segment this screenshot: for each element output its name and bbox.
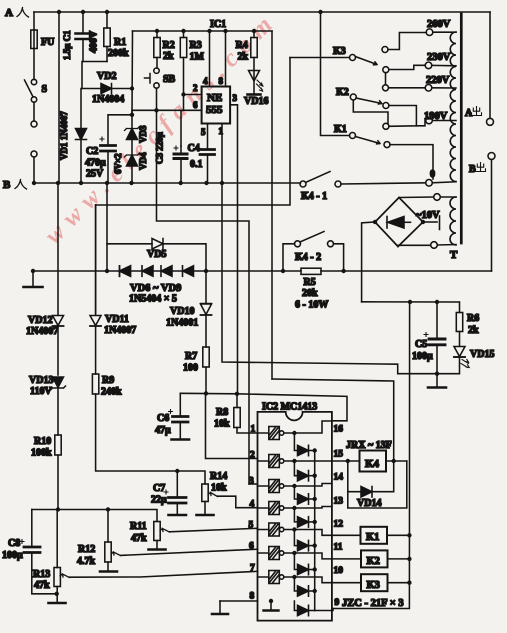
- wire K4 right: [386, 460, 407, 462]
- node tap 0: [426, 169, 456, 186]
- resistor R1: [104, 12, 129, 62]
- node loop dots: [31, 269, 35, 273]
- svg-text:4: 4: [203, 76, 208, 86]
- capacitor C8: [2, 510, 57, 594]
- wire SB bottom: [156, 88, 158, 110]
- diode VD9: [129, 266, 194, 305]
- svg-text:VD10: VD10: [170, 306, 194, 317]
- svg-text:C7: C7: [153, 483, 165, 494]
- svg-text:100k: 100k: [31, 448, 52, 459]
- fuse FU: [31, 30, 55, 49]
- node K2 lower throw: [383, 103, 389, 109]
- ground IC2 internal: [264, 599, 279, 611]
- terminal B-out: [469, 153, 495, 272]
- svg-text:10k: 10k: [214, 419, 230, 430]
- svg-text:4: 4: [250, 500, 255, 510]
- svg-text:6: 6: [249, 542, 254, 552]
- svg-text:0: 0: [430, 169, 435, 180]
- svg-text:6 - 10W: 6 - 10W: [295, 300, 328, 311]
- node R13 bottom: [55, 592, 59, 596]
- node C7 junction: [175, 469, 179, 473]
- svg-text:A: A: [5, 7, 13, 19]
- svg-text:R4: R4: [236, 40, 248, 51]
- node C5 ground dot: [435, 372, 439, 376]
- label B-in: [3, 179, 27, 191]
- wire K2 lower chain: [389, 106, 417, 126]
- cell CH4: [258, 502, 332, 515]
- wire C3 column: [181, 95, 184, 147]
- svg-text:1M: 1M: [190, 52, 205, 63]
- svg-text:22μ: 22μ: [151, 495, 167, 506]
- svg-text:R8: R8: [216, 407, 228, 418]
- zener VD4: [113, 140, 148, 184]
- wire S to terminal: [33, 102, 35, 121]
- wire FU to S: [33, 49, 35, 80]
- label pin numbers right: [334, 425, 344, 609]
- ground C6: [172, 438, 190, 441]
- svg-text:100μ: 100μ: [412, 351, 433, 362]
- node K2 upper throw: [383, 85, 389, 91]
- wire pin4: [209, 31, 211, 87]
- wire diode bus: [314, 451, 316, 611]
- wire K3 upper to 260V: [388, 33, 426, 50]
- svg-text:8: 8: [219, 76, 224, 86]
- svg-text:R6: R6: [467, 313, 479, 324]
- svg-text:IC2 MC1413: IC2 MC1413: [262, 402, 317, 413]
- svg-text:C4: C4: [188, 143, 200, 154]
- svg-text:8: 8: [250, 592, 255, 602]
- node V+ rail dots: [155, 29, 159, 33]
- capacitor C4: [188, 143, 215, 183]
- node secondary top: [416, 194, 456, 221]
- relay K1: [332, 527, 412, 544]
- contact K3: [290, 46, 377, 65]
- diode D-CH6: [292, 551, 317, 575]
- svg-text:R3: R3: [190, 40, 202, 51]
- svg-text:C8: C8: [8, 538, 20, 549]
- ground main: [24, 271, 43, 287]
- capacitor C2: [85, 137, 116, 183]
- wire bridge AC bottom: [398, 245, 431, 246]
- svg-text:100μ: 100μ: [2, 550, 23, 561]
- node K1 lower throw: [384, 142, 390, 148]
- svg-text:FU: FU: [41, 37, 54, 48]
- relay K2: [332, 550, 412, 567]
- svg-text:R1: R1: [114, 37, 126, 48]
- node divider dots: [56, 507, 60, 511]
- node R7 node dots: [204, 391, 208, 395]
- svg-text:R14: R14: [210, 471, 227, 482]
- svg-text:2k: 2k: [163, 51, 174, 62]
- svg-text:R2: R2: [163, 40, 175, 51]
- ground pin8: [212, 601, 228, 614]
- svg-text:9: 9: [335, 598, 340, 608]
- svg-text:R12: R12: [78, 544, 95, 555]
- wire pin9 exit: [315, 609, 333, 611]
- svg-text:200k: 200k: [108, 48, 129, 59]
- diode VD10: [166, 271, 212, 347]
- node secondary bottom: [431, 242, 456, 249]
- wire bridge right stub: [421, 216, 440, 230]
- node pin2 junction: [181, 92, 185, 96]
- svg-text:VD12: VD12: [28, 315, 52, 326]
- diode D-CH4: [292, 506, 317, 527]
- capacitor C5: [412, 302, 445, 374]
- svg-text:R9: R9: [102, 375, 114, 386]
- resistor R6: [456, 302, 479, 346]
- node B rail dots: [32, 181, 36, 185]
- wire R1-C1 join: [82, 62, 107, 89]
- capacitor C3: [155, 132, 188, 183]
- svg-text:400V: 400V: [89, 30, 100, 53]
- ground R12: [100, 570, 117, 573]
- svg-text:R7: R7: [185, 351, 197, 362]
- wire terminal to B rail: [33, 157, 35, 183]
- wire A-in drop: [33, 12, 35, 30]
- node open terminal lower: [31, 151, 37, 157]
- wire K3 lower to 230V: [389, 65, 426, 69]
- svg-text:47k: 47k: [131, 533, 147, 544]
- svg-text:3: 3: [233, 93, 238, 103]
- svg-text:JRX ~ 13F: JRX ~ 13F: [346, 440, 392, 451]
- wire pin8: [220, 600, 258, 602]
- svg-text:12: 12: [334, 520, 344, 530]
- wire bridge AC top: [399, 196, 434, 199]
- wire K4-1 to 0 tap: [341, 183, 426, 184]
- svg-text:1: 1: [251, 425, 256, 435]
- wire bridge DC left: [362, 222, 375, 302]
- diode VD2: [82, 71, 132, 105]
- diode VD7: [142, 266, 153, 277]
- diode D-CH5: [292, 527, 317, 551]
- cell CH3: [258, 480, 332, 493]
- svg-text:JZC - 21F × 3: JZC - 21F × 3: [342, 598, 404, 609]
- diode D-CH8: [294, 601, 314, 616]
- diode VD1: [59, 89, 87, 184]
- svg-text:47k: 47k: [34, 580, 50, 591]
- svg-text:K4 - 2: K4 - 2: [295, 252, 321, 263]
- svg-text:470μ: 470μ: [85, 158, 106, 169]
- svg-text:6: 6: [193, 100, 198, 110]
- diode VD5: [107, 239, 206, 272]
- wire K1 lower to 0 tap: [390, 145, 433, 179]
- wire supply drop: [333, 302, 410, 609]
- switch S: [25, 79, 48, 102]
- cell CH1: [258, 421, 332, 440]
- switch K4-1: [300, 172, 341, 203]
- svg-text:1N5404 × 5: 1N5404 × 5: [129, 294, 177, 305]
- wire DC rail y302: [362, 301, 459, 303]
- svg-text:NE: NE: [207, 92, 222, 104]
- wire W1 ground link: [222, 183, 435, 374]
- svg-text:C5: C5: [415, 339, 427, 350]
- svg-text:K4 - 1: K4 - 1: [301, 191, 327, 202]
- svg-text:1N4001: 1N4001: [166, 318, 198, 329]
- zener VD13: [29, 375, 66, 435]
- svg-text:K3: K3: [333, 46, 346, 57]
- svg-text:16: 16: [334, 425, 344, 435]
- svg-text:K3: K3: [367, 580, 380, 591]
- node open terminal upper: [31, 121, 37, 127]
- svg-text:1N4004: 1N4004: [92, 94, 124, 105]
- svg-text:C2: C2: [86, 146, 98, 157]
- wire K2 upper to 220V: [389, 87, 426, 89]
- svg-text:11: 11: [334, 543, 343, 553]
- wire pin3 entry: [249, 483, 258, 485]
- node tap 230V: [425, 52, 456, 69]
- svg-text:5: 5: [201, 127, 206, 137]
- svg-text:2: 2: [193, 83, 198, 93]
- svg-text:240k: 240k: [101, 387, 122, 398]
- diode D-CH1: [292, 431, 317, 456]
- svg-text:20k: 20k: [302, 288, 318, 299]
- svg-text:B: B: [3, 179, 11, 191]
- svg-text:R5: R5: [304, 277, 316, 288]
- svg-text:10k: 10k: [211, 483, 227, 494]
- wire K3lower-K2upper chain: [385, 73, 387, 85]
- svg-text:VD11: VD11: [105, 314, 129, 325]
- node tap 190V: [424, 111, 456, 124]
- wire VD11 column top: [95, 205, 97, 313]
- svg-text:K4: K4: [365, 458, 380, 470]
- node DC rail dots: [408, 300, 412, 304]
- diode VD8: [161, 266, 172, 277]
- resistor R2: [154, 31, 175, 68]
- diode D-CH2: [292, 459, 317, 481]
- svg-text:2k: 2k: [238, 52, 249, 63]
- wire pin3: [230, 105, 237, 394]
- ground R11: [149, 548, 166, 551]
- wire plain column x59: [58, 12, 60, 183]
- svg-text:110V: 110V: [30, 386, 52, 397]
- label A-in: [5, 7, 29, 19]
- cell CH6: [258, 547, 332, 560]
- wire pin2: [184, 94, 202, 96]
- node VD2 junction: [130, 86, 134, 90]
- svg-text:VD6 ~ VD9: VD6 ~ VD9: [130, 283, 181, 294]
- node tap 220V: [425, 75, 456, 91]
- svg-text:555: 555: [206, 104, 223, 116]
- diode VD14: [348, 461, 394, 509]
- bridge rectifier: [375, 198, 423, 247]
- cell CH5: [258, 523, 332, 536]
- svg-text:C6: C6: [157, 413, 169, 424]
- node K4-2 dots: [281, 269, 285, 273]
- node SB junction: [154, 108, 158, 112]
- svg-text:230V: 230V: [427, 52, 451, 63]
- wire W2 supply link: [272, 379, 394, 461]
- wire K2 common chain to K1 upper: [353, 100, 388, 123]
- svg-text:25V: 25V: [86, 169, 104, 180]
- wire pin1: [221, 124, 223, 184]
- svg-text:SB: SB: [163, 74, 176, 85]
- wire main loop y271: [33, 270, 492, 272]
- svg-text:R11: R11: [130, 521, 147, 532]
- svg-text:VD15: VD15: [470, 349, 494, 360]
- wire pin8: [225, 31, 227, 87]
- resistor R4: [236, 31, 258, 70]
- svg-text:2k: 2k: [468, 325, 479, 336]
- svg-text:T: T: [450, 249, 458, 261]
- svg-text:VD13: VD13: [29, 375, 53, 386]
- resistor R7: [183, 347, 209, 393]
- diode D-CH3: [292, 484, 317, 504]
- resistor R3: [180, 31, 204, 95]
- potentiometer R11: [130, 521, 258, 549]
- svg-text:5: 5: [249, 521, 254, 531]
- cell CH7: [258, 571, 332, 584]
- resistor R9: [92, 374, 177, 471]
- wire C2 branch: [108, 115, 132, 144]
- svg-text:VD3: VD3: [138, 125, 148, 143]
- svg-text:10: 10: [334, 566, 344, 576]
- wire pin2 drop: [206, 393, 258, 458]
- node bridge left dot: [373, 220, 377, 224]
- svg-text:K1: K1: [366, 532, 379, 543]
- node K3 lower throw: [383, 67, 389, 73]
- wire K4 outer loop: [348, 461, 407, 508]
- svg-text:13: 13: [334, 497, 344, 507]
- node K1 upper throw: [383, 123, 389, 129]
- svg-text:VD4: VD4: [138, 152, 148, 170]
- ground C7: [169, 514, 187, 517]
- svg-text:2: 2: [250, 451, 255, 461]
- relay K4: [332, 440, 392, 472]
- svg-text:220V: 220V: [426, 75, 450, 86]
- svg-text:1N4007: 1N4007: [26, 326, 58, 337]
- transformer secondary: [450, 197, 456, 245]
- svg-text:47μ: 47μ: [155, 425, 171, 436]
- zener VD3: [125, 115, 149, 143]
- LED VD15: [437, 347, 494, 374]
- wire K1 upper to 190V: [389, 121, 426, 127]
- capacitor C7: [151, 471, 186, 514]
- wire VD5 branch column: [106, 183, 108, 271]
- svg-text:100: 100: [183, 363, 198, 374]
- wire B rail: [34, 182, 301, 184]
- diode D-CH7: [292, 575, 317, 596]
- svg-text:15: 15: [334, 450, 344, 460]
- wire V+ rail: [133, 30, 273, 32]
- diode VD11: [90, 205, 136, 374]
- capacitor C6: [155, 393, 188, 438]
- wire pin5 C4 column: [207, 124, 209, 149]
- contact K1: [321, 12, 381, 144]
- svg-text:R10: R10: [34, 436, 51, 447]
- capacitor C1: [62, 12, 100, 62]
- svg-text:R13: R13: [33, 569, 50, 580]
- ground R14: [197, 514, 214, 517]
- svg-text:VD5: VD5: [147, 249, 166, 260]
- node K4 drive dot: [392, 459, 396, 463]
- node K3 upper throw: [382, 47, 388, 53]
- pushbutton SB: [145, 68, 176, 88]
- label pin numbers left: [249, 425, 256, 602]
- potentiometer R14: [177, 471, 257, 514]
- svg-text:VD16: VD16: [244, 96, 268, 107]
- wire pin6 node: [132, 110, 202, 115]
- relay K3: [332, 574, 412, 591]
- potentiometer R13: [33, 510, 258, 603]
- contact K2: [336, 87, 382, 104]
- wire divider node: [32, 510, 157, 522]
- wire V+ rail column: [131, 31, 134, 115]
- diode VD12: [26, 183, 64, 375]
- potentiometer R12: [77, 510, 258, 571]
- node A rail dots: [57, 10, 61, 14]
- ground C5: [428, 374, 446, 388]
- resistor R8: [214, 394, 258, 433]
- LED VD16: [244, 71, 268, 108]
- svg-text:K2: K2: [336, 87, 349, 98]
- svg-text:6V×2: 6V×2: [113, 153, 123, 174]
- svg-text:14: 14: [334, 473, 344, 483]
- transformer core: [460, 14, 463, 243]
- wire Vplus drop right: [271, 31, 273, 379]
- diode VD6: [120, 266, 131, 277]
- wire A rail: [34, 11, 490, 13]
- switch K4-2: [295, 232, 334, 264]
- svg-text:S: S: [42, 84, 48, 95]
- resistor R10: [31, 435, 61, 510]
- svg-text:1N4007: 1N4007: [104, 325, 136, 336]
- node C2 junction: [130, 113, 134, 117]
- cell CH2: [258, 455, 332, 468]
- svg-text:1.5μ C1: 1.5μ C1: [62, 30, 72, 60]
- IC U2 MC1413: [258, 402, 332, 621]
- transformer T primary: [450, 32, 458, 261]
- resistor R5: [295, 268, 328, 310]
- svg-text:IC1: IC1: [210, 19, 226, 30]
- svg-text:0.1: 0.1: [190, 159, 203, 170]
- svg-text:VD1 1N4007: VD1 1N4007: [59, 111, 69, 160]
- svg-text:4.7k: 4.7k: [77, 556, 96, 567]
- wire R7 node: [180, 393, 347, 421]
- svg-text:K2: K2: [367, 556, 380, 567]
- svg-text:3: 3: [249, 477, 254, 487]
- svg-text:7: 7: [250, 564, 255, 574]
- svg-text:190V: 190V: [424, 111, 448, 122]
- wire pin3 feed: [157, 110, 250, 484]
- node tap 260V: [426, 19, 456, 36]
- svg-text:K1: K1: [334, 124, 347, 135]
- terminal A-out: [465, 12, 494, 125]
- IC U1 NE555: [193, 76, 238, 137]
- wire K4-2 right drop: [334, 244, 344, 271]
- svg-text:VD2: VD2: [97, 71, 116, 82]
- wire K4-2 left drop: [283, 244, 295, 271]
- wire K3 line: [96, 58, 290, 206]
- ground R13: [49, 602, 66, 605]
- svg-text:260V: 260V: [427, 19, 451, 30]
